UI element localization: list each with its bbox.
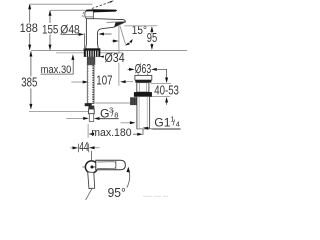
svg-text:Ø34: Ø34	[105, 51, 125, 65]
drain flange	[135, 75, 152, 80]
svg-text:G1: G1	[154, 115, 170, 129]
svg-text:95: 95	[147, 31, 157, 45]
svg-text:44: 44	[79, 140, 88, 154]
detail rotated lever open position	[88, 172, 95, 189]
drain extension line B	[152, 96, 171, 98]
dimension 385 vertical line	[30, 52, 32, 109]
detail pivot circle	[85, 161, 97, 173]
drain extension line A	[151, 83, 171, 85]
svg-text:107: 107	[96, 73, 112, 87]
lever blade	[93, 9, 117, 12]
dashed swing arc left of knob	[83, 12, 84, 17]
flexible hose column	[87, 65, 94, 104]
base dark band	[84, 48, 101, 50]
svg-text:188: 188	[20, 21, 38, 35]
rod socket	[130, 97, 137, 105]
G3/8 thread arrows	[66, 117, 85, 119]
extension line to detail	[91, 151, 93, 160]
drain lock nut black	[134, 92, 152, 97]
svg-text:40-53: 40-53	[154, 83, 179, 97]
extension line top 188	[30, 3, 93, 5]
svg-text:4: 4	[176, 119, 180, 128]
svg-text:Ø63: Ø63	[135, 62, 151, 76]
dashed raised lever	[92, 1, 112, 8]
dimension 44	[70, 147, 73, 149]
15 degree tilted line	[120, 26, 126, 45]
15 degree arc with arrowheads	[126, 40, 132, 45]
drain flange arrow down	[165, 78, 168, 84]
dimension 155 arrowheads	[49, 10, 52, 50]
dimension 188 vertical line	[29, 5, 31, 50]
label D34 with leader	[101, 56, 104, 58]
svg-text:95°: 95°	[108, 186, 126, 200]
hose end fitting	[88, 106, 94, 109]
svg-text:155: 155	[42, 23, 59, 37]
pop-up plug dashes	[138, 74, 147, 77]
faint watermark dashes	[143, 195, 168, 197]
spout blade underside line	[107, 21, 126, 24]
arrow up to extension B	[165, 97, 168, 103]
dimension max180 left extension	[87, 124, 89, 137]
pop-up rod horizontal line	[95, 102, 132, 104]
dimension 107	[71, 81, 85, 83]
knob base seam	[86, 16, 94, 18]
dimension 188 arrowheads	[28, 4, 31, 51]
extension line spout outlet	[124, 25, 157, 27]
svg-text:385: 385	[21, 76, 37, 90]
svg-text:15°: 15°	[132, 23, 147, 37]
water stream vertical line	[118, 26, 120, 86]
mounting nut block	[84, 51, 101, 57]
tailpipe center extension	[142, 129, 144, 135]
drain body	[137, 83, 149, 93]
hose end nut	[85, 103, 92, 106]
extra arrow to pipe	[121, 122, 131, 124]
drain tailpipe	[137, 97, 150, 129]
handle knob	[85, 10, 93, 19]
95 degree arc	[127, 169, 130, 188]
extension line top 155	[50, 9, 85, 11]
svg-text:max.180: max.180	[91, 127, 132, 139]
dimension 385 arrowheads	[29, 51, 32, 110]
horizontal arrow at stream line	[112, 40, 116, 42]
dimension 95 vertical	[151, 27, 153, 49]
threaded shank	[87, 57, 95, 65]
fitting thread tail	[89, 114, 93, 122]
deck line	[31, 50, 187, 52]
aerator angled face	[114, 22, 125, 27]
dimension max180 right arrow	[133, 133, 137, 135]
extension line bottom 385	[29, 110, 88, 112]
detail lever bar	[96, 160, 126, 170]
counter bottom line	[56, 52, 123, 54]
label D63 with arrows	[128, 68, 131, 70]
svg-text:8: 8	[114, 111, 118, 120]
faucet body and spout outline	[86, 18, 126, 50]
dimension 155 vertical line	[49, 11, 51, 50]
